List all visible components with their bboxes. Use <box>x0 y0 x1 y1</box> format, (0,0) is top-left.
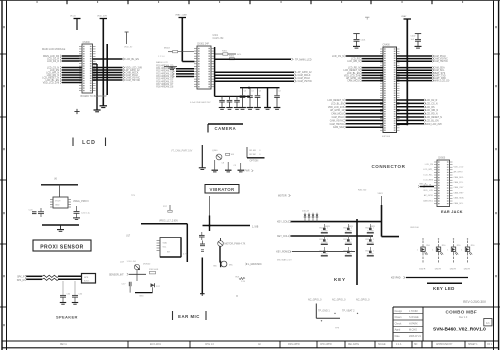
camera data wires <box>173 68 195 78</box>
left border zone letters <box>3 26 5 326</box>
border top line <box>0 0 500 2</box>
svg-text:SVN-B460_V02_R0V1.0: SVN-B460_V02_R0V1.0 <box>433 326 486 332</box>
bottom strip cell dividers <box>128 341 485 348</box>
svg-text:1: 1 <box>327 227 328 229</box>
svg-text:CHG 1.0: CHG 1.0 <box>205 344 215 346</box>
svg-text:R306: R306 <box>229 56 235 58</box>
svg-text:Date: Date <box>395 335 401 338</box>
svg-text:1: 1 <box>432 250 433 252</box>
key matrix bold feed <box>381 205 383 237</box>
svg-text:C2 SW: C2 SW <box>345 242 352 244</box>
key matrix feed corner <box>382 236 400 238</box>
svg-text:CAM_PCLK: CAM_PCLK <box>434 55 447 58</box>
svg-text:SPK_P: SPK_P <box>17 277 25 279</box>
svg-text:NC_GPIO_0: NC_GPIO_0 <box>308 299 322 302</box>
svg-text:LCD_RS: LCD_RS <box>426 107 436 109</box>
right border zone letters <box>495 26 497 277</box>
svg-text:D50 R: D50 R <box>435 268 442 270</box>
camera capacitor bank upper row <box>239 88 281 110</box>
svg-text:OPTION: OPTION <box>250 160 259 162</box>
svg-text:EAR JACK: EAR JACK <box>441 210 463 214</box>
sensor resistor R18 <box>149 269 159 274</box>
top border zone numerals <box>37 1 464 3</box>
svg-text:C2 SW: C2 SW <box>345 253 352 255</box>
title block left column row lines <box>393 314 423 333</box>
sensor IC inner texts <box>163 241 172 253</box>
svg-text:C3: C3 <box>244 91 246 93</box>
board connector bus junction <box>397 123 409 125</box>
top border zone ticks <box>67 0 432 4</box>
svg-text:1: 1 <box>461 250 462 252</box>
svg-text:NC_GPIO_0: NC_GPIO_0 <box>356 299 370 302</box>
svg-text:KEY: KEY <box>334 277 346 282</box>
svg-text:VDD_2V8: VDD_2V8 <box>97 15 108 17</box>
board connector right lower wires <box>397 99 443 126</box>
svg-text:2.2K: 2.2K <box>241 281 246 283</box>
LCD wire pin7 down to ground <box>93 64 101 112</box>
proxi sensor label box <box>33 240 91 251</box>
svg-text:APPROVED BY: APPROVED BY <box>436 343 453 346</box>
camera capacitor bank lower row <box>219 96 240 109</box>
proxi cap C21 with ground <box>73 206 91 220</box>
svg-text:VDD_LCD: VDD_LCD <box>423 190 433 192</box>
svg-text:ECO-2031: ECO-2031 <box>150 344 162 346</box>
svg-text:RA300 4.7K: RA300 4.7K <box>156 61 168 64</box>
svg-text:1: 1 <box>373 239 374 241</box>
svg-text:R305: R305 <box>222 50 228 52</box>
svg-text:VREG_L17_2.85V: VREG_L17_2.85V <box>159 221 178 223</box>
svg-text:SCALE: SCALE <box>378 343 386 346</box>
nc list entries <box>318 309 358 321</box>
svg-text:C3: C3 <box>251 91 253 93</box>
svg-text:CAM_SCL: CAM_SCL <box>454 202 465 205</box>
svg-text:VDD_LCD_2V8: VDD_LCD_2V8 <box>426 124 443 126</box>
svg-text:UART_TXD: UART_TXD <box>434 74 446 77</box>
svg-text:C2 SW: C2 SW <box>367 253 374 255</box>
vibrator wire <box>203 224 259 228</box>
sensor IC body <box>160 238 181 258</box>
svg-text:H.PARK: H.PARK <box>409 322 418 325</box>
svg-text:VT_CAM_PWR 2.8V: VT_CAM_PWR 2.8V <box>171 150 193 153</box>
board connector right upper wires <box>397 55 451 83</box>
sensor net label wire <box>109 273 146 276</box>
svg-text:C2 SW: C2 SW <box>345 230 352 232</box>
svg-text:KEY_ROW2: KEY_ROW2 <box>276 252 289 254</box>
VT cam small caps and grounds <box>212 160 245 172</box>
nc list header texts <box>308 299 370 302</box>
svg-text:SHEET 1: SHEET 1 <box>468 344 478 346</box>
svg-text:C2 SW: C2 SW <box>321 253 328 255</box>
bus wire VBAT_CAM vertical <box>181 18 183 62</box>
svg-text:CAM_SDA: CAM_SDA <box>333 126 345 129</box>
svg-text:LCD_RD_: LCD_RD_ <box>424 174 434 176</box>
title block sheet box <box>484 319 492 326</box>
svg-text:CAMERA: CAMERA <box>215 126 237 131</box>
svg-text:R40 220: R40 220 <box>358 190 367 192</box>
svg-text:BOARD TO BOARD 39P: BOARD TO BOARD 39P <box>81 95 108 98</box>
svg-text:SPK: SPK <box>84 277 89 279</box>
svg-text:MIC BIAS 2.2V: MIC BIAS 2.2V <box>277 258 292 261</box>
svg-text:KEY_COL1: KEY_COL1 <box>277 236 290 238</box>
svg-text:L_MAIN MIC: L_MAIN MIC <box>248 263 262 266</box>
svg-text:GND: GND <box>55 204 60 206</box>
svg-text:CONNECTOR: CONNECTOR <box>372 164 406 169</box>
svg-text:VKEY: VKEY <box>378 193 384 195</box>
svg-text:VOUT: VOUT <box>55 200 61 202</box>
svg-text:AP_GPIO: AP_GPIO <box>454 171 464 174</box>
svg-text:C402: C402 <box>411 36 417 38</box>
svg-text:CAM_VSYNC: CAM_VSYNC <box>434 58 449 61</box>
camera right resistor 2 <box>229 56 235 60</box>
VT cam transistor Q300 <box>212 150 222 160</box>
svg-text:KEY LED: KEY LED <box>433 286 455 291</box>
svg-text:GND: GND <box>139 296 144 298</box>
svg-text:1:1 A: 1:1 A <box>396 343 402 346</box>
svg-text:D50 R: D50 R <box>419 268 426 270</box>
power symbol VLCD top-left <box>70 15 81 30</box>
svg-text:Drawn: Drawn <box>395 316 403 319</box>
svg-text:R49 100: R49 100 <box>411 227 420 229</box>
svg-text:OF 1: OF 1 <box>487 344 493 346</box>
svg-text:VREG_PROXI: VREG_PROXI <box>73 200 89 203</box>
svg-text:AP_GPIO: AP_GPIO <box>424 194 434 197</box>
svg-text:M.CHO: M.CHO <box>409 329 417 332</box>
camera connector CN301 body <box>197 46 211 89</box>
svg-text:REV A: REV A <box>60 343 67 346</box>
svg-text:TP_VBAT 2: TP_VBAT 2 <box>342 309 355 312</box>
svg-text:1 2 3 4: 1 2 3 4 <box>158 56 165 58</box>
key led label <box>427 283 462 291</box>
svg-text:CN400: CN400 <box>383 45 391 47</box>
svg-text:D50 R: D50 R <box>450 268 457 270</box>
camera bus vertical <box>214 47 216 96</box>
svg-text:LCD_WR_N: LCD_WR_N <box>347 61 360 63</box>
svg-text:CAM_D5: CAM_D5 <box>164 78 174 81</box>
camera cap bank rail lower <box>215 95 250 97</box>
svg-text:LCD_RD_N: LCD_RD_N <box>426 114 438 116</box>
bus wire second vertical <box>106 44 108 95</box>
svg-text:R2 NC: R2 NC <box>250 154 257 156</box>
right border zone ticks <box>494 54 500 307</box>
small ground mark top middle <box>365 17 369 19</box>
bus wire VBAT connector vertical <box>406 19 408 124</box>
svg-text:CAM 1.3M: CAM 1.3M <box>213 37 224 40</box>
svg-text:C401: C401 <box>361 40 367 42</box>
svg-text:LCD_WR_N: LCD_WR_N <box>426 110 439 112</box>
svg-text:NN: NN <box>414 344 418 346</box>
bottom strip bottom line <box>2 347 499 349</box>
ground cross symbol <box>74 109 79 114</box>
svg-text:U17: U17 <box>126 235 131 237</box>
speaker wires with beads <box>17 275 82 282</box>
wire TP_MAIN long <box>214 58 312 61</box>
svg-text:REL DATE: REL DATE <box>348 343 359 346</box>
keypad net wire <box>391 276 468 279</box>
mic resistor squiggle <box>236 276 246 282</box>
svg-text:1: 1 <box>417 250 418 252</box>
left border zone ticks <box>0 54 7 307</box>
svg-text:VDD_LCD_2V8: VDD_LCD_2V8 <box>43 83 60 85</box>
svg-text:MAIN LCD MODULE: MAIN LCD MODULE <box>42 48 66 51</box>
speaker body <box>82 274 96 284</box>
svg-text:SPEAKER: SPEAKER <box>56 314 78 319</box>
svg-text:VBAT_CAM: VBAT_CAM <box>175 13 187 16</box>
camera power wire corner <box>182 61 194 63</box>
bottom strip cell texts <box>60 343 493 346</box>
svg-text:CAM_MCLK: CAM_MCLK <box>331 113 344 116</box>
svg-text:CAM_MCLK: CAM_MCLK <box>347 80 360 83</box>
svg-text:CAM_VSYNC: CAM_VSYNC <box>330 119 345 122</box>
key matrix row wire 3 <box>292 251 355 253</box>
svg-text:REV 0.20/0.30V: REV 0.20/0.30V <box>463 300 487 304</box>
svg-text:LCD: LCD <box>82 140 96 146</box>
camera connector CN301 pins <box>194 48 214 88</box>
board connector CN400 pins <box>380 48 400 130</box>
wire bundle camera to AP <box>214 71 312 83</box>
sensor VREG wire <box>141 221 187 224</box>
camera module note text <box>213 35 224 40</box>
connector top cap C401 <box>353 34 366 49</box>
vibrator stem wire <box>209 196 211 216</box>
svg-text:0.1uF X5R 0402 25V: 0.1uF X5R 0402 25V <box>190 102 211 104</box>
svg-text:COMBO MBF: COMBO MBF <box>446 309 478 314</box>
border outer left line <box>1 0 3 350</box>
svg-text:CAM_D8: CAM_D8 <box>164 86 174 89</box>
svg-text:CAM_SDA: CAM_SDA <box>434 67 446 70</box>
svg-text:VT_PWR: VT_PWR <box>240 171 250 173</box>
svg-text:CAM_HSYNC: CAM_HSYNC <box>126 79 141 82</box>
ear jack side net texts <box>423 164 465 205</box>
camera cap bank bus member <box>264 88 271 110</box>
svg-text:MIC: MIC <box>229 264 233 266</box>
title block column divider <box>422 307 424 341</box>
svg-text:LCD_RESET_N: LCD_RESET_N <box>328 100 345 102</box>
connector top cap C402 <box>411 34 422 49</box>
svg-text:1: 1 <box>351 227 352 229</box>
vibrator label box <box>205 185 239 194</box>
proxi IC body <box>53 197 68 208</box>
mic L_MAIN text <box>246 263 262 266</box>
svg-text:LCD_BL_EN: LCD_BL_EN <box>331 103 344 105</box>
svg-text:S.W.LEE: S.W.LEE <box>409 316 419 319</box>
svg-text:C3: C3 <box>259 91 261 93</box>
camera cap bank junction <box>248 87 250 89</box>
title block outline <box>393 307 494 341</box>
svg-text:MAIN_LCD_D0: MAIN_LCD_D0 <box>434 80 451 83</box>
svg-text:UART_RXD: UART_RXD <box>434 77 447 80</box>
svg-text:MIC_P: MIC_P <box>420 183 427 185</box>
svg-text:LCD_RES: LCD_RES <box>423 180 433 182</box>
camera cap bank rail upper <box>240 87 280 89</box>
key matrix switch cells <box>320 224 376 257</box>
proxi top rail <box>41 184 78 186</box>
svg-text:CAM_PCLK: CAM_PCLK <box>298 77 311 80</box>
option table bracket <box>247 147 265 158</box>
svg-text:LCD_BL_EN: LCD_BL_EN <box>126 59 140 61</box>
LCD connector CN300 pins <box>79 46 96 91</box>
ear mic label <box>173 311 207 320</box>
svg-text:2006.07.21: 2006.07.21 <box>409 335 422 338</box>
LCD left net label wires <box>42 55 82 85</box>
svg-text:C2 SW: C2 SW <box>367 242 374 244</box>
svg-text:EAR MIC: EAR MIC <box>178 314 200 319</box>
svg-text:KEY_COL0: KEY_COL0 <box>277 222 290 224</box>
svg-text:1.5V LDO: 1.5V LDO <box>127 261 137 263</box>
power symbol VDD bus <box>97 15 108 18</box>
svg-text:LCD_RESET_N: LCD_RESET_N <box>426 117 443 119</box>
svg-text:VDD_LCD: VDD_LCD <box>454 166 464 168</box>
svg-text:AP_GPIO_12: AP_GPIO_12 <box>346 77 361 80</box>
camera left net stub <box>164 48 194 53</box>
sensor transistor Q17 <box>120 262 151 271</box>
camera section label bracket <box>208 124 243 133</box>
VT cam resistor <box>226 153 235 156</box>
svg-text:D50 R: D50 R <box>464 268 471 270</box>
svg-text:NC_GPIO_0: NC_GPIO_0 <box>332 299 346 302</box>
VT cam ground <box>199 168 206 170</box>
svg-text:LCD_WR_: LCD_WR_ <box>423 169 434 171</box>
svg-text:1: 1 <box>351 250 352 252</box>
svg-text:MCLK: MCLK <box>164 48 171 50</box>
option table rows <box>250 150 262 156</box>
svg-text:MOTOR: MOTOR <box>278 196 287 198</box>
LCD connector CN300 body <box>82 44 93 93</box>
svg-text:CAM_HSYNC: CAM_HSYNC <box>434 60 449 63</box>
svg-text:VBAT_SYS: VBAT_SYS <box>434 72 446 75</box>
svg-text:CAM_MCL: CAM_MCL <box>423 199 434 202</box>
svg-text:CHK APPR: CHK APPR <box>320 343 332 346</box>
svg-text:TP_MAIN_LCD: TP_MAIN_LCD <box>295 58 312 61</box>
svg-text:LCD_D2_R: LCD_D2_R <box>47 61 59 63</box>
svg-text:CAM_VSY: CAM_VSY <box>454 186 465 189</box>
sensor IC pins <box>157 241 188 256</box>
camera left ground <box>164 67 177 70</box>
svg-text:CAM_MCLK: CAM_MCLK <box>298 74 311 77</box>
border inner right line <box>493 0 495 350</box>
key matrix row wire 2 <box>291 235 374 237</box>
svg-text:C2 SW: C2 SW <box>321 230 328 232</box>
board connector CN400 body <box>383 47 397 133</box>
key led diodes <box>417 238 475 270</box>
svg-text:SDA: SDA <box>163 241 168 244</box>
svg-text:U301: U301 <box>213 35 219 37</box>
svg-text:AP_GPIO_12: AP_GPIO_12 <box>330 109 345 112</box>
vibrator transistor Q20 <box>218 238 246 246</box>
svg-text:C2 SW: C2 SW <box>321 242 328 244</box>
svg-text:CAM_SCL: CAM_SCL <box>434 69 446 72</box>
svg-text:1: 1 <box>327 250 328 252</box>
svg-text:Design: Design <box>395 310 403 313</box>
VT cam net label <box>240 170 253 173</box>
svg-text:LCD_CS_N: LCD_CS_N <box>332 56 344 58</box>
proxi IC pins <box>50 200 71 208</box>
svg-text:CAM_VSYNC: CAM_VSYNC <box>298 80 313 83</box>
svg-text:CAM_PCLK: CAM_PCLK <box>332 116 345 119</box>
svg-text:40P B-B: 40P B-B <box>382 136 391 138</box>
proxi cap C20 <box>29 208 45 217</box>
svg-text:CAM_HSY: CAM_HSY <box>454 191 465 194</box>
svg-text:LCD_RS: LCD_RS <box>425 164 434 166</box>
board connector left lower wires <box>328 99 383 129</box>
speaker esd caps <box>60 281 83 304</box>
svg-text:8ohm: 8ohm <box>84 280 89 282</box>
sensor ground rail <box>130 270 152 298</box>
sensor comp above wire <box>163 205 172 212</box>
vibrator bold vertical <box>209 216 211 232</box>
svg-text:Check: Check <box>395 322 403 325</box>
svg-text:1/1: 1/1 <box>486 322 490 325</box>
power symbol VBAT_CAM <box>175 13 187 17</box>
svg-text:CN300: CN300 <box>83 42 91 44</box>
LCD section label <box>73 138 106 147</box>
key matrix power stem <box>358 190 384 205</box>
mic bold vertical <box>219 246 221 262</box>
svg-text:C21 0.1u: C21 0.1u <box>81 213 91 215</box>
ear jack wire <box>418 183 434 187</box>
svg-text:VDD_LCD_2V8: VDD_LCD_2V8 <box>328 107 345 109</box>
svg-text:1: 1 <box>447 250 448 252</box>
proxi IC inner text <box>55 200 61 206</box>
svg-text:1: 1 <box>373 250 374 252</box>
resistor array RA300 <box>156 56 174 88</box>
border outer right line <box>498 0 500 350</box>
svg-text:2N7002: 2N7002 <box>143 264 151 266</box>
LCD right wires to net labels <box>93 58 143 82</box>
mic symbol <box>214 261 234 268</box>
svg-text:J.H.KIM: J.H.KIM <box>409 310 418 313</box>
svg-text:1: 1 <box>351 239 352 241</box>
bus wire VDD_2V8 vertical <box>102 19 104 106</box>
svg-text:LCD_D2_R: LCD_D2_R <box>426 100 438 102</box>
svg-text:MOTOR_PWM 4.7K: MOTOR_PWM 4.7K <box>225 244 246 246</box>
proxi rail stem <box>59 185 61 197</box>
border inner left line <box>6 0 8 350</box>
ear jack connector CN500 body <box>437 160 450 207</box>
LCD right power stem <box>124 32 132 48</box>
svg-text:Rev 1.0: Rev 1.0 <box>459 316 468 319</box>
bus wire ground termination <box>100 106 108 108</box>
svg-text:CAM_MCL: CAM_MCL <box>454 176 465 179</box>
svg-text:SENSOR_INT: SENSOR_INT <box>109 274 124 276</box>
mic faint dot <box>236 295 237 296</box>
svg-text:CN301 24P: CN301 24P <box>197 44 209 46</box>
power symbol VBAT connector bus <box>401 15 411 19</box>
sensor wire corner down <box>186 224 188 262</box>
svg-text:CAM_D7: CAM_D7 <box>164 83 174 86</box>
ear jack connector pins <box>434 161 453 204</box>
svg-text:VLCD: VLCD <box>70 15 76 17</box>
svg-text:CN500: CN500 <box>438 158 446 160</box>
camera right wire with resistor <box>214 50 242 56</box>
svg-text:KEYPAD: KEYPAD <box>391 277 401 280</box>
svg-text:Appd: Appd <box>395 329 401 332</box>
svg-text:TP_GND 1: TP_GND 1 <box>318 309 330 312</box>
svg-text:CAM_SDA: CAM_SDA <box>454 197 465 200</box>
key matrix left net labels <box>276 221 291 254</box>
board connector left upper wires <box>332 55 383 83</box>
sensor cap C17 <box>122 282 132 286</box>
svg-text:LCD_CS_N: LCD_CS_N <box>426 103 438 105</box>
svg-text:PROXI SENSOR: PROXI SENSOR <box>40 244 83 250</box>
proxi bottom rail <box>42 224 79 226</box>
svg-text:4.7K: 4.7K <box>183 254 188 256</box>
svg-text:1: 1 <box>327 239 328 241</box>
svg-text:LCD_BL_EN: LCD_BL_EN <box>426 120 439 122</box>
sensor diode D17 <box>151 283 161 288</box>
key matrix column bus <box>356 219 358 285</box>
key matrix diode cluster <box>302 210 318 221</box>
proxi ground <box>57 225 64 231</box>
